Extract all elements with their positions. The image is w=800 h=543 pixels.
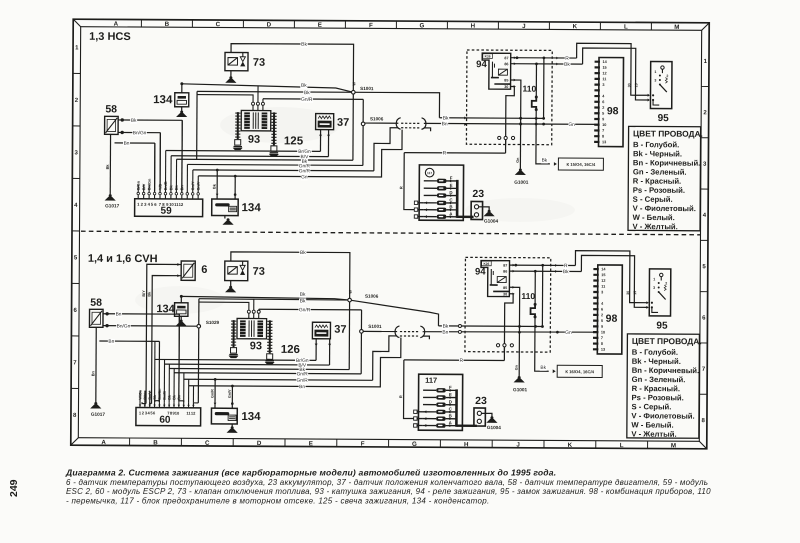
capacitor 134 bottom-right — [211, 408, 237, 424]
svg-text:B: B — [449, 413, 452, 418]
svg-text:E: E — [318, 22, 322, 29]
svg-text:2: 2 — [665, 281, 667, 285]
svg-text:85: 85 — [503, 286, 507, 290]
svg-text:R - Красный.: R - Красный. — [632, 384, 680, 393]
svg-text:R: R — [443, 151, 447, 157]
svg-text:Ps - Розовый.: Ps - Розовый. — [633, 186, 685, 195]
svg-text:87: 87 — [503, 264, 507, 268]
svg-text:Bn: Bn — [124, 141, 130, 147]
ignition coil 93 bottom — [237, 318, 267, 338]
svg-text:S1001: S1001 — [368, 324, 382, 329]
ground under capacitor 134 lower — [224, 216, 226, 219]
riser from bus2 bottom down-left — [197, 299, 200, 403]
svg-text:W - Белый.: W - Белый. — [633, 213, 675, 222]
thick wire fuse A to battery — [457, 216, 473, 218]
svg-text:R: R — [564, 263, 568, 269]
svg-text:B/V: B/V — [142, 183, 146, 190]
module 59 pin stubs — [137, 195, 139, 199]
svg-text:3: 3 — [601, 290, 603, 294]
svg-text:Bk: Bk — [443, 324, 449, 330]
svg-text:G: G — [412, 441, 417, 448]
svg-text:Bn: Bn — [116, 312, 122, 318]
svg-text:Bk: Bk — [300, 250, 306, 256]
ground under capacitor 134 bottom-left — [180, 316, 182, 319]
svg-text:Bn: Bn — [442, 121, 448, 127]
svg-text:58: 58 — [105, 103, 117, 115]
svg-text:Bn/V: Bn/V — [148, 391, 152, 400]
ignition coil 93 — [241, 110, 271, 130]
engine temperature sensor 58 bottom — [89, 309, 103, 327]
svg-text:G1001: G1001 — [514, 180, 528, 185]
svg-text:G1001: G1001 — [513, 387, 527, 392]
svg-text:93: 93 — [250, 340, 262, 352]
wire bundle Bk — [177, 159, 353, 160]
sensor 58 wire BrGn — [118, 131, 160, 133]
svg-text:R: R — [565, 56, 569, 62]
wire R bus — [404, 152, 505, 155]
svg-text:Gn: Gn — [568, 122, 575, 128]
svg-text:J: J — [522, 23, 526, 30]
wire to ground G1001 bottom — [518, 352, 520, 376]
svg-text:1: 1 — [653, 277, 655, 281]
dashed divider between diagrams — [81, 231, 700, 235]
svg-text:Bn: Bn — [180, 185, 184, 191]
ground under 73 bottom — [230, 281, 232, 286]
svg-text:S - Серый.: S - Серый. — [633, 195, 673, 204]
coil bottom riser 2 — [253, 299, 255, 310]
svg-text:F: F — [361, 441, 365, 448]
ground under 73 — [230, 71, 232, 77]
fuel shutoff valve 73 — [225, 52, 248, 70]
svg-text:L: L — [624, 24, 628, 31]
wire S1001 down to bundle — [352, 94, 354, 160]
sensor 58 bottom wire Bn — [103, 313, 179, 315]
wire R bus left riser — [404, 153, 415, 210]
svg-text:134: 134 — [153, 94, 173, 106]
svg-text:Gn/V: Gn/V — [228, 389, 232, 398]
svg-text:Bk: Bk — [300, 298, 306, 304]
spark plug 126 left — [231, 348, 237, 354]
legend box wire colors bottom — [627, 334, 700, 438]
wire to ground G1001 — [519, 145, 521, 169]
svg-text:12: 12 — [602, 71, 606, 75]
svg-text:V - Фиолетовый.: V - Фиолетовый. — [633, 204, 696, 213]
wire Bk row into relay box — [439, 117, 543, 120]
sensor 37 lead right — [327, 130, 329, 157]
sensor 37 bottom lead left — [315, 339, 317, 361]
svg-text:H: H — [471, 23, 476, 30]
spark plug 126 right — [267, 354, 273, 360]
svg-text:Диаграмма 2. Система зажигани: Диаграмма 2. Система зажигания (все карб… — [65, 467, 556, 477]
svg-text:98: 98 — [607, 105, 619, 117]
svg-text:12: 12 — [179, 202, 184, 207]
spark plug 125 left — [235, 140, 241, 146]
coil terminal riser 1 — [197, 95, 253, 103]
ground G1004 — [488, 210, 491, 213]
svg-text:9: 9 — [602, 117, 604, 121]
svg-text:Bk: Bk — [301, 83, 307, 89]
svg-text:V - Желтый.: V - Желтый. — [631, 429, 676, 438]
junction S1029 — [197, 324, 201, 328]
wire bundle Bk bottom — [169, 369, 349, 370]
svg-text:12: 12 — [191, 411, 196, 416]
wire Bk to ignition switch bottom — [581, 255, 647, 307]
wire S1001 bottom riser — [360, 310, 362, 374]
module 60 pin risers — [139, 391, 141, 402]
svg-text:110: 110 — [523, 84, 537, 94]
capacitor bottom-right right riser — [231, 386, 233, 408]
svg-text:13: 13 — [601, 348, 605, 352]
svg-text:A: A — [114, 21, 119, 28]
svg-text:Bn - Коричневый.: Bn - Коричневый. — [632, 366, 699, 375]
svg-text:15: 15 — [634, 83, 638, 87]
svg-text:6: 6 — [601, 308, 603, 312]
svg-text:К 16/О4, 16С/4: К 16/О4, 16С/4 — [565, 369, 594, 374]
svg-text:6: 6 — [602, 100, 604, 104]
svg-text:Bk: Bk — [542, 158, 548, 164]
svg-text:5: 5 — [601, 319, 603, 323]
capacitor bottom-right left riser — [214, 379, 216, 408]
svg-text:8: 8 — [601, 342, 603, 346]
wire bundle GnR 1 — [187, 164, 362, 165]
svg-text:15: 15 — [633, 291, 637, 295]
svg-text:Bk: Bk — [301, 42, 307, 48]
svg-text:1,4 и 1,6 CVH: 1,4 и 1,6 CVH — [88, 253, 158, 265]
sensor 58 bottom wire Bn 2 — [99, 340, 159, 342]
svg-text:12: 12 — [601, 279, 605, 283]
svg-text:73: 73 — [253, 57, 265, 69]
svg-text:5: 5 — [602, 112, 604, 116]
thick wire fuse A to battery bottom — [456, 424, 476, 427]
switch 95 bottom pins — [646, 301, 648, 304]
svg-text:23: 23 — [475, 395, 487, 407]
svg-text:K26: K26 — [485, 54, 491, 58]
svg-text:G: G — [419, 22, 424, 29]
svg-text:A: A — [101, 439, 106, 446]
sensor 37 bottom lead right — [329, 339, 331, 365]
fuse bus bar bottom — [455, 389, 458, 426]
svg-text:Gn: Gn — [301, 174, 308, 180]
svg-text:Bk: Bk — [300, 292, 306, 298]
wire GnR bus — [263, 98, 363, 101]
svg-text:Bk - Черный.: Bk - Черный. — [632, 357, 681, 366]
wire R bus bottom right riser — [503, 347, 505, 361]
coil HT tower right bottom — [269, 320, 271, 353]
relay 94 bottom pin 30 wire — [504, 294, 513, 344]
connector 98 pins — [595, 61, 600, 63]
jumper 110 bottom — [534, 271, 536, 304]
svg-text:30: 30 — [503, 292, 507, 296]
wire R bus bottom left riser — [404, 360, 414, 419]
ground G1004 bottom — [490, 416, 493, 419]
svg-text:D: D — [257, 440, 262, 447]
svg-text:134: 134 — [241, 411, 261, 423]
wire Bn bottom with inline connector — [363, 330, 397, 332]
inner border frame — [78, 27, 701, 442]
sensor 6 wire upper — [146, 264, 181, 403]
svg-text:E: E — [450, 183, 453, 188]
svg-text:F: F — [450, 176, 453, 181]
svg-text:6 - датчик температуры поступа: 6 - датчик температуры поступающего возд… — [66, 478, 708, 487]
ground G1001 — [519, 168, 522, 171]
svg-text:C: C — [216, 21, 221, 28]
svg-text:Gn: Gn — [516, 157, 520, 163]
module 60 pin stubs — [139, 402, 141, 407]
coil HT tower right — [273, 112, 275, 145]
svg-text:Bk: Bk — [540, 365, 546, 371]
wire Bk bus from capacitor to S1001 — [182, 84, 354, 92]
row ticks left band — [73, 72, 80, 74]
svg-text:K26: K26 — [483, 262, 489, 266]
svg-text:Gn/R: Gn/R — [297, 371, 309, 377]
svg-text:R: R — [398, 395, 403, 398]
vertical wire from 87 junction — [543, 58, 545, 118]
relay box bottom connector pins bottom — [496, 344, 499, 347]
wire R bus right riser — [505, 140, 507, 154]
svg-text:G1004: G1004 — [484, 219, 498, 224]
svg-text:ESC 2, 60 - модуль ESCP 2, 73: ESC 2, 60 - модуль ESCP 2, 73 - клапан о… — [66, 487, 711, 496]
connector box K bottom — [557, 365, 602, 377]
module 60 riser joints — [158, 401, 160, 403]
svg-text:73: 73 — [253, 266, 265, 278]
instrument cluster connector 98 — [599, 58, 624, 147]
svg-text:Bk - Черный.: Bk - Черный. — [633, 149, 682, 158]
svg-text:Bk: Bk — [105, 164, 110, 170]
svg-text:M: M — [671, 442, 676, 449]
svg-text:Gn/Y: Gn/Y — [191, 181, 195, 190]
svg-text:B/Y: B/Y — [143, 393, 147, 400]
svg-text:D: D — [267, 21, 272, 28]
svg-text:Gn/V: Gn/V — [197, 181, 201, 190]
svg-text:Bk: Bk — [443, 116, 449, 122]
switch 95 pins — [648, 94, 650, 97]
svg-text:15: 15 — [601, 273, 605, 277]
coil bottom riser 1 — [199, 302, 249, 310]
svg-text:1: 1 — [654, 70, 656, 74]
svg-text:R: R — [459, 358, 463, 364]
wire Bk to ignition switch — [582, 48, 648, 100]
battery 23 — [471, 201, 483, 219]
svg-text:Bn/B: Bn/B — [163, 391, 167, 400]
svg-text:D: D — [449, 399, 452, 404]
ignition switch 95 — [650, 61, 672, 108]
svg-text:30: 30 — [627, 83, 631, 87]
wire bundle BrGn — [166, 150, 321, 153]
svg-text:2: 2 — [666, 74, 668, 78]
svg-text:249: 249 — [8, 479, 20, 497]
svg-text:V - Желтый.: V - Желтый. — [633, 222, 678, 231]
column ticks bottom band — [129, 438, 131, 445]
riser bends bottom — [179, 401, 184, 403]
relay 94 bottom pin 86 wire Bk — [509, 270, 581, 272]
svg-text:S1001: S1001 — [360, 86, 374, 91]
svg-text:B: B — [165, 21, 170, 28]
svg-text:W: W — [348, 290, 353, 294]
svg-text:86: 86 — [504, 62, 508, 66]
svg-text:93: 93 — [248, 134, 260, 146]
svg-text:G1017: G1017 — [105, 203, 119, 208]
svg-text:Bn - Коричневый.: Bn - Коричневый. — [633, 158, 700, 167]
capacitor 134 lower — [212, 199, 238, 216]
fuse rows bottom — [423, 389, 436, 391]
column ticks top band — [140, 20, 142, 27]
connector row2 staircase right bottom — [423, 336, 430, 339]
crank position sensor 37 — [316, 114, 334, 130]
ESCP module 60 — [136, 408, 201, 426]
svg-text:K: K — [573, 23, 578, 30]
relay 94 pin 85 wire — [510, 80, 521, 145]
svg-text:G1017: G1017 — [91, 412, 105, 417]
svg-text:ЦВЕТ ПРОВОДА.: ЦВЕТ ПРОВОДА. — [633, 128, 703, 138]
svg-text:К 15/О4, 16С/4: К 15/О4, 16С/4 — [567, 162, 596, 167]
svg-text:10: 10 — [601, 330, 605, 334]
svg-text:58: 58 — [90, 297, 102, 309]
svg-text:S1006: S1006 — [370, 116, 384, 121]
svg-text:7: 7 — [602, 129, 604, 133]
svg-text:Y/B: Y/B — [158, 184, 162, 191]
outer border frame — [71, 19, 709, 449]
legend box wire colors — [628, 126, 701, 230]
dashed box ignition relay area bottom — [465, 257, 551, 352]
capacitor lower left riser — [216, 170, 218, 199]
svg-text:R - Красный.: R - Красный. — [633, 176, 681, 185]
wire Bk bus2 — [197, 91, 440, 117]
svg-text:D: D — [449, 190, 452, 195]
row ticks right band — [701, 85, 708, 87]
relay 94 bottom pin 87 wire R — [510, 264, 576, 266]
module 59 pin risers — [137, 185, 139, 193]
wire R to ignition switch — [576, 43, 648, 95]
svg-text:Bn: Bn — [108, 339, 114, 345]
relay 94 pin 87 wire R — [511, 57, 577, 59]
junction S1006 bottom — [348, 298, 352, 302]
relay 94 pin 86 wire Bk — [511, 63, 583, 65]
instrument cluster connector 98 bottom — [597, 265, 622, 354]
svg-text:Gn/R: Gn/R — [299, 307, 311, 313]
svg-text:9: 9 — [601, 325, 603, 329]
svg-text:Gn - Зеленый.: Gn - Зеленый. — [632, 375, 686, 384]
svg-text:1,3 HCS: 1,3 HCS — [89, 31, 131, 43]
coil 93 top terminals — [252, 102, 255, 105]
svg-text:C: C — [205, 440, 210, 447]
svg-text:134: 134 — [156, 303, 175, 315]
svg-text:Bk: Bk — [131, 118, 137, 124]
wire Bk to connector K bottom — [535, 352, 549, 371]
svg-text:ЦВЕТ ПРОВОДА.: ЦВЕТ ПРОВОДА. — [632, 336, 702, 346]
svg-text:110: 110 — [521, 291, 535, 301]
sensor 58 wire Bk — [118, 119, 182, 121]
connector row2 staircase right — [424, 128, 431, 131]
svg-text:59: 59 — [161, 206, 173, 217]
svg-text:2: 2 — [602, 106, 604, 110]
svg-text:37: 37 — [334, 324, 346, 336]
svg-text:Bn: Bn — [442, 330, 448, 336]
ground under capacitor 134 bottom-right — [231, 424, 233, 427]
wire bundle GnR 2 to connector — [193, 170, 374, 171]
wire bundle GnR2 bottom to connector — [184, 379, 373, 380]
svg-text:Ps - Розовый.: Ps - Розовый. — [632, 393, 684, 402]
svg-text:23: 23 — [472, 188, 484, 200]
relay 94 pin 30 wire — [506, 86, 515, 136]
svg-text:7: 7 — [601, 336, 603, 340]
coil terminal riser 3 GnR — [262, 99, 264, 102]
svg-text:F: F — [369, 22, 373, 29]
coil HT tower left — [237, 112, 239, 139]
svg-text:J: J — [516, 442, 520, 449]
svg-text:B/Y: B/Y — [142, 290, 146, 297]
svg-text:B: B — [449, 204, 452, 209]
svg-text:Bn/Gn: Bn/Gn — [117, 323, 131, 329]
frame corner bevels — [73, 19, 81, 27]
svg-text:W - Белый.: W - Белый. — [631, 420, 673, 429]
svg-text:В - Голубой.: В - Голубой. — [632, 348, 678, 357]
svg-text:Bn/Gn: Bn/Gn — [158, 388, 162, 400]
wire Bk row bottom — [438, 325, 542, 328]
battery ground wire — [479, 207, 490, 210]
svg-text:Gn: Gn — [515, 364, 519, 370]
wire bundle Bn bottom with staircase — [189, 336, 401, 387]
fuse box 117 — [418, 374, 462, 430]
wire bundle BV bottom — [164, 363, 329, 366]
connector box K 15/04 — [558, 158, 603, 170]
svg-text:Bk: Bk — [564, 62, 570, 68]
svg-text:117: 117 — [425, 376, 437, 385]
svg-text:W/Gn: W/Gn — [138, 389, 142, 399]
wire 73 bottom top pin Bk — [231, 252, 350, 300]
ground G1017 top — [109, 194, 112, 197]
wire bundle Gn with staircase — [198, 128, 402, 177]
svg-text:Bk: Bk — [304, 90, 310, 96]
svg-text:98: 98 — [606, 313, 618, 325]
sensor 58 bottom ground wire — [95, 327, 97, 402]
svg-text:2: 2 — [601, 313, 603, 317]
svg-text:Bk: Bk — [563, 269, 569, 275]
battery ground wire bottom — [481, 413, 492, 416]
ground G1017 bottom — [94, 402, 97, 405]
sensor 6 wire lower — [152, 276, 182, 404]
wire 73 top pin Bk to S1001 — [231, 44, 354, 93]
air temperature sensor 6 — [181, 261, 195, 280]
ignition relay 94 — [482, 53, 511, 89]
svg-text:K: K — [568, 442, 573, 449]
fuse rows — [424, 180, 437, 182]
jumper 110 — [535, 64, 537, 97]
svg-text:B: B — [153, 439, 158, 446]
wire R to ignition switch bottom — [575, 251, 647, 303]
ground G1001 bottom — [518, 376, 521, 379]
svg-text:95: 95 — [658, 113, 670, 124]
svg-text:S - Серый.: S - Серый. — [631, 402, 671, 411]
svg-text:Gn: Gn — [565, 330, 572, 336]
svg-text:8: 8 — [602, 135, 604, 139]
ground under capacitor 134 upper — [181, 107, 183, 111]
svg-text:60: 60 — [159, 415, 171, 426]
coil HT tower left bottom — [233, 320, 235, 347]
svg-text:3: 3 — [602, 83, 604, 87]
svg-text:G1004: G1004 — [487, 425, 501, 430]
svg-text:87: 87 — [504, 56, 508, 60]
svg-text:F: F — [449, 385, 452, 390]
svg-text:86: 86 — [503, 270, 507, 274]
wire Bk bus2 bottom diagonal — [199, 299, 439, 326]
svg-text:3: 3 — [654, 79, 656, 83]
svg-text:134: 134 — [242, 202, 262, 214]
battery 23 bottom — [474, 408, 486, 426]
svg-text:E: E — [449, 392, 452, 397]
svg-text:Gn/R: Gn/R — [299, 168, 311, 174]
svg-text:117: 117 — [427, 171, 432, 175]
ignition switch 95 bottom — [649, 269, 671, 316]
